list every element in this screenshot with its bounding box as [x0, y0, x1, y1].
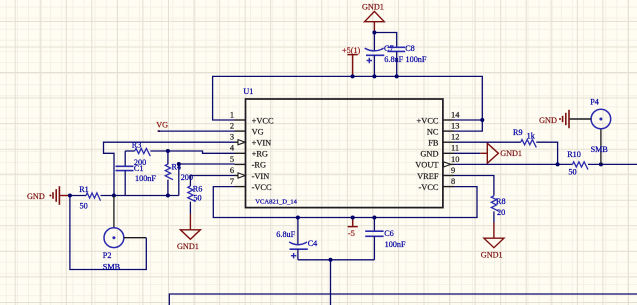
- wire C4-C6 bottom: [298, 259, 375, 261]
- svg-text:R1: R1: [79, 185, 89, 194]
- svg-text:50: 50: [568, 167, 576, 176]
- ground GND1 pin11: [454, 152, 480, 154]
- svg-text:14: 14: [451, 110, 460, 119]
- ground GND1 right-bottom: [493, 223, 495, 239]
- wire pin 5: [179, 164, 235, 196]
- svg-text:P4: P4: [590, 97, 599, 106]
- connector P2: [113, 196, 115, 228]
- svg-text:-RG: -RG: [252, 161, 266, 170]
- capacitor C4: [297, 218, 299, 246]
- svg-text:SMB: SMB: [591, 145, 609, 154]
- capacitor C8: [388, 47, 406, 51]
- node: [296, 216, 300, 220]
- node: [177, 162, 181, 166]
- wire +VCC rail: [213, 76, 483, 131]
- wire pin 14: [454, 119, 482, 121]
- node: [166, 149, 170, 153]
- power +5(1): [347, 55, 357, 77]
- node: [68, 194, 72, 198]
- capacitor C1: [124, 151, 126, 166]
- svg-text:6.8uF: 6.8uF: [276, 230, 295, 239]
- svg-text:R10: R10: [567, 150, 581, 159]
- svg-text:C1: C1: [134, 164, 144, 173]
- wire -VCC rail pins 7-8: [213, 187, 477, 218]
- svg-text:100nF: 100nF: [135, 174, 156, 183]
- svg-text:R3: R3: [132, 141, 142, 150]
- svg-text:13: 13: [451, 122, 459, 131]
- svg-text:-VCC: -VCC: [252, 183, 272, 192]
- svg-text:P2: P2: [103, 251, 112, 260]
- svg-text:GND1: GND1: [481, 250, 503, 259]
- svg-text:C6: C6: [384, 229, 394, 238]
- svg-text:1k: 1k: [527, 132, 536, 141]
- wire input bus to pin 3: [104, 142, 235, 195]
- svg-text:10: 10: [451, 155, 459, 164]
- svg-text:-VCC: -VCC: [418, 183, 438, 192]
- ground GND1 top: [365, 11, 385, 21]
- svg-text:11: 11: [451, 144, 459, 153]
- svg-text:GND1: GND1: [362, 3, 384, 12]
- svg-text:VOUT: VOUT: [415, 161, 438, 170]
- svg-text:100nF: 100nF: [406, 55, 427, 64]
- svg-text:1: 1: [230, 110, 234, 119]
- resistor R8: [491, 196, 499, 212]
- node: [351, 74, 355, 78]
- wire VOUT: [454, 163, 572, 165]
- wire pin 6: [190, 176, 234, 187]
- svg-text:+5(1): +5(1): [342, 46, 361, 55]
- svg-text:R9: R9: [513, 128, 523, 137]
- svg-text:-VIN: -VIN: [252, 172, 270, 181]
- svg-text:2: 2: [230, 122, 234, 131]
- connector P4: [600, 129, 602, 165]
- resistor R10: [572, 162, 588, 170]
- wire drop to bottom: [330, 260, 332, 305]
- svg-text:GND: GND: [420, 150, 438, 159]
- svg-text:50: 50: [193, 194, 201, 203]
- svg-text:200: 200: [181, 173, 193, 182]
- resistor R1: [70, 195, 86, 197]
- svg-text:50: 50: [80, 202, 88, 211]
- svg-text:VG: VG: [252, 127, 264, 136]
- op-amp U1: [246, 99, 443, 208]
- svg-text:SMB: SMB: [103, 262, 121, 271]
- svg-text:+VIN: +VIN: [252, 139, 272, 148]
- capacitor C7: [365, 48, 384, 51]
- svg-text:+RG: +RG: [252, 150, 268, 159]
- svg-text:VCA821_D_14: VCA821_D_14: [255, 199, 297, 206]
- svg-text:FB: FB: [428, 139, 439, 148]
- resistor R6: [188, 186, 196, 202]
- svg-text:-5: -5: [348, 229, 355, 238]
- svg-text:C4: C4: [308, 239, 318, 248]
- svg-text:+VCC: +VCC: [417, 116, 439, 125]
- wire VG to pin 2: [159, 130, 235, 132]
- wire bottom long: [169, 294, 637, 305]
- svg-text:12: 12: [451, 133, 459, 142]
- resistor R9: [454, 141, 521, 143]
- wire GND1 to C7: [373, 33, 375, 52]
- node: [556, 162, 560, 166]
- svg-text:GND: GND: [539, 116, 557, 125]
- node: [329, 258, 333, 262]
- svg-text:6: 6: [230, 166, 234, 175]
- svg-text:5: 5: [230, 155, 234, 164]
- svg-text:VG: VG: [156, 121, 168, 130]
- capacitor C6: [373, 218, 375, 232]
- svg-text:NC: NC: [427, 127, 439, 136]
- svg-text:9: 9: [451, 166, 455, 175]
- svg-text:6.8uF: 6.8uF: [384, 55, 403, 64]
- svg-text:3: 3: [230, 133, 234, 142]
- svg-text:20: 20: [497, 208, 505, 217]
- svg-text:100nF: 100nF: [385, 240, 406, 249]
- node: [372, 31, 376, 35]
- svg-text:7: 7: [230, 177, 234, 186]
- svg-text:VREF: VREF: [417, 172, 439, 181]
- svg-text:GND: GND: [27, 192, 45, 201]
- svg-text:8: 8: [451, 177, 455, 186]
- wire GND1 to C8: [374, 33, 396, 48]
- svg-text:GND1: GND1: [500, 149, 522, 158]
- svg-text:R8: R8: [496, 197, 506, 206]
- wire pin 9 to R8: [454, 176, 494, 196]
- svg-text:U1: U1: [243, 87, 253, 96]
- node pin14 junction: [480, 118, 484, 122]
- wire pin 4: [168, 151, 235, 153]
- ground GND1 left: [189, 214, 191, 230]
- svg-text:C8: C8: [405, 44, 415, 53]
- svg-text:GND1: GND1: [177, 242, 199, 251]
- resistor R4: [167, 151, 169, 164]
- svg-text:+VCC: +VCC: [252, 116, 274, 125]
- svg-text:R6: R6: [193, 184, 203, 193]
- power -5: [348, 218, 358, 227]
- resistor R3: [125, 150, 135, 152]
